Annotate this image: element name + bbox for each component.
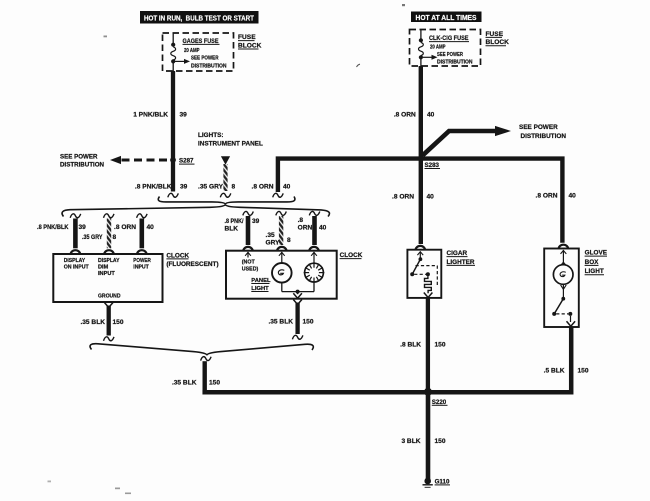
- svg-text:.8 ORN: .8 ORN: [394, 112, 416, 119]
- svg-text:8: 8: [232, 184, 236, 191]
- svg-text:39: 39: [79, 224, 87, 231]
- svg-text:40: 40: [427, 112, 435, 119]
- svg-text:SEE POWER: SEE POWER: [437, 52, 464, 58]
- svg-text:.8 PNK/BLK: .8 PNK/BLK: [37, 224, 69, 231]
- svg-text:39: 39: [180, 112, 188, 119]
- svg-text:40: 40: [147, 224, 155, 231]
- svg-text:150: 150: [435, 438, 446, 445]
- svg-text:150: 150: [578, 368, 589, 375]
- svg-text:INPUT: INPUT: [98, 271, 115, 277]
- svg-text:CLOCK: CLOCK: [340, 252, 363, 259]
- svg-text:GAGES FUSE: GAGES FUSE: [183, 38, 220, 45]
- svg-text:HOT AT ALL TIMES: HOT AT ALL TIMES: [416, 15, 477, 22]
- svg-text:CLOCK: CLOCK: [166, 252, 189, 259]
- svg-text:POWER: POWER: [133, 258, 151, 264]
- svg-text:DIM: DIM: [98, 265, 109, 271]
- svg-text:150: 150: [113, 319, 124, 326]
- svg-text:3 BLK: 3 BLK: [401, 438, 420, 445]
- svg-text:(FLUORESCENT): (FLUORESCENT): [166, 261, 218, 268]
- svg-text:LIGHTER: LIGHTER: [447, 259, 475, 266]
- svg-text:150: 150: [435, 341, 446, 348]
- svg-text:INPUT: INPUT: [133, 265, 149, 271]
- svg-text:.8 ORN: .8 ORN: [392, 194, 414, 201]
- svg-text:40: 40: [283, 184, 291, 191]
- svg-text:(NOT: (NOT: [242, 260, 256, 266]
- svg-text:HOT IN RUN, BULB TEST OR STAR: HOT IN RUN, BULB TEST OR START: [144, 15, 255, 22]
- svg-text:1 PNK/BLK: 1 PNK/BLK: [133, 112, 168, 119]
- svg-text:.8 PNK/BLK: .8 PNK/BLK: [135, 184, 172, 191]
- svg-text:ORN: ORN: [298, 225, 313, 232]
- svg-text:40: 40: [427, 194, 435, 201]
- svg-text:CIGAR: CIGAR: [447, 250, 468, 257]
- svg-text:G110: G110: [435, 478, 450, 485]
- svg-text:GRY: GRY: [266, 240, 281, 247]
- svg-text:8: 8: [113, 234, 117, 241]
- svg-text:.8 BLK: .8 BLK: [400, 341, 421, 348]
- svg-text:GROUND: GROUND: [98, 293, 121, 299]
- svg-text:CLK-CIG FUSE: CLK-CIG FUSE: [429, 35, 469, 42]
- svg-text:DISPLAY: DISPLAY: [98, 258, 120, 264]
- svg-text:.8 ORN: .8 ORN: [114, 224, 136, 231]
- svg-text:BOX: BOX: [585, 259, 600, 266]
- svg-text:DISTRIBUTION: DISTRIBUTION: [521, 133, 567, 140]
- svg-text:LIGHT: LIGHT: [585, 268, 604, 275]
- svg-text:20 AMP: 20 AMP: [430, 44, 446, 50]
- svg-text:SEE POWER: SEE POWER: [519, 124, 558, 131]
- svg-text:SEE POWER: SEE POWER: [60, 154, 98, 161]
- svg-text:BLOCK: BLOCK: [238, 42, 262, 49]
- svg-text:.8 ORN: .8 ORN: [252, 184, 274, 191]
- svg-text:.35: .35: [266, 232, 275, 239]
- svg-text:.8 PNK/: .8 PNK/: [225, 218, 244, 225]
- svg-text:150: 150: [209, 380, 220, 387]
- svg-text:S220: S220: [432, 399, 447, 406]
- svg-text:BLOCK: BLOCK: [486, 39, 510, 46]
- svg-text:.35 BLK: .35 BLK: [268, 318, 293, 325]
- svg-text:8: 8: [287, 237, 291, 244]
- svg-text:39: 39: [180, 184, 188, 191]
- svg-text:.8 ORN: .8 ORN: [536, 193, 558, 200]
- svg-text:INSTRUMENT PANEL: INSTRUMENT PANEL: [198, 141, 263, 148]
- svg-text:.35 GRY: .35 GRY: [82, 234, 103, 241]
- svg-text:BLK: BLK: [225, 226, 239, 233]
- svg-text:FUSE: FUSE: [238, 34, 256, 41]
- svg-text:USED): USED): [242, 266, 259, 272]
- svg-text:DISTRIBUTION: DISTRIBUTION: [60, 162, 105, 169]
- svg-text:S287: S287: [179, 158, 194, 165]
- svg-text:20 AMP: 20 AMP: [184, 48, 200, 54]
- svg-text:40: 40: [319, 225, 327, 232]
- svg-text:40: 40: [569, 193, 577, 200]
- svg-text:S283: S283: [425, 162, 440, 169]
- svg-text:.35 BLK: .35 BLK: [172, 380, 197, 387]
- svg-text:GLOVE: GLOVE: [585, 250, 608, 257]
- svg-text:DISTRIBUTION: DISTRIBUTION: [191, 63, 227, 69]
- svg-text:ON INPUT: ON INPUT: [64, 265, 90, 271]
- svg-text:.35 BLK: .35 BLK: [80, 319, 105, 326]
- svg-text:.8: .8: [298, 217, 304, 224]
- svg-text:.5 BLK: .5 BLK: [544, 368, 565, 375]
- svg-text:DISPLAY: DISPLAY: [64, 258, 86, 264]
- svg-text:SEE POWER: SEE POWER: [191, 56, 219, 62]
- svg-text:39: 39: [252, 218, 260, 225]
- svg-text:FUSE: FUSE: [486, 31, 504, 38]
- svg-text:LIGHTS:: LIGHTS:: [198, 132, 224, 139]
- svg-text:.35 GRY: .35 GRY: [198, 184, 224, 191]
- svg-text:150: 150: [303, 318, 314, 325]
- svg-text:DISTRIBUTION: DISTRIBUTION: [437, 60, 473, 66]
